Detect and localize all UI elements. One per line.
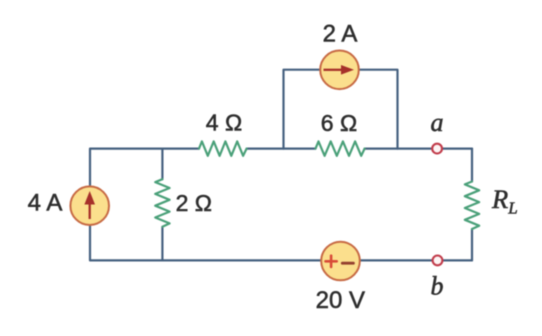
svg-text:6 Ω: 6 Ω [321,110,357,136]
svg-text:4 Ω: 4 Ω [206,110,242,136]
svg-text:RL: RL [491,184,518,218]
current source I2 2A arrow [324,65,355,75]
svg-text:2 Ω: 2 Ω [176,190,212,216]
voltage source V1 minus sign [342,262,353,265]
wire: right branch upper segment [471,149,473,182]
wire: 2-ohm branch upper segment [161,149,163,180]
wire: middle rail from 6ohm to node a and right corner [365,148,472,150]
current source I2 2A (circle) [320,51,359,90]
wire: right branch lower segment [471,229,473,260]
wire: left outer loop (middle rail left, left branch, bottom rail) [90,149,472,261]
svg-text:a: a [431,108,444,137]
svg-text:20 V: 20 V [316,287,365,314]
wire: middle rail between 4ohm and 6ohm [247,148,316,150]
svg-text:2 A: 2 A [323,21,358,48]
resistor RL (vertical zigzag) [465,182,479,230]
svg-text:4 A: 4 A [28,190,63,217]
svg-text:b: b [431,271,444,300]
resistor 2-ohm (vertical zigzag) [155,179,169,227]
wire: 2-ohm branch lower segment [161,227,163,261]
resistor 4-ohm (zigzag) [199,141,247,155]
terminal node b (open circle) [433,256,443,266]
wire: top branch loop with 2A source [284,70,398,149]
current source I1 4A (circle) [70,186,109,225]
resistor 6-ohm (zigzag) [316,141,365,155]
voltage source V1 plus sign [326,256,337,267]
current source I1 4A arrow [84,191,95,219]
terminal node a (open circle) [432,144,442,154]
voltage source V1 20V (circle) [321,242,360,281]
